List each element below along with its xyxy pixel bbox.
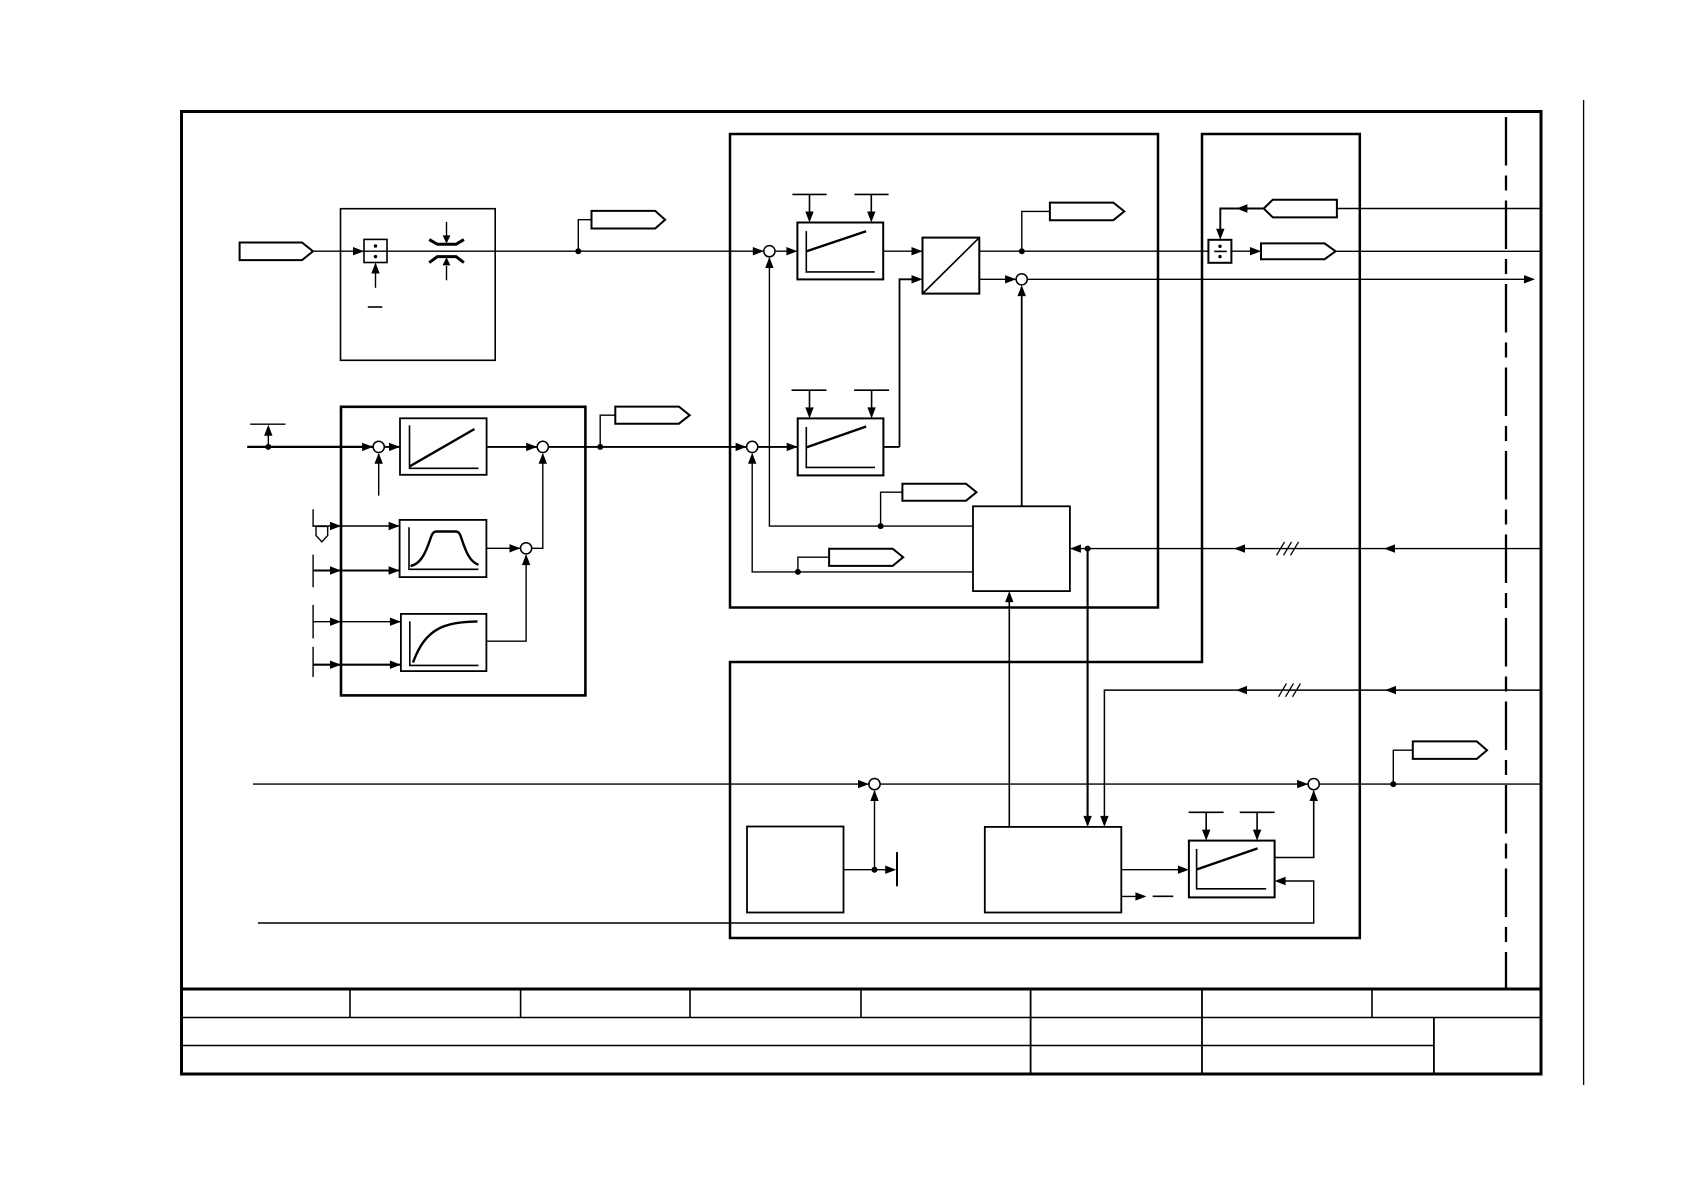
- connector flag F2: [829, 549, 903, 566]
- dashed source rail for left inputs: [312, 509, 314, 677]
- block B: scaling/limiter block top-left: [341, 209, 496, 361]
- arrowheads pointing down: [805, 212, 1261, 841]
- wire: kernel box M lower output toward minus: [1121, 895, 1140, 897]
- wire: S2 output line to right frame with end arrow: [1027, 278, 1526, 280]
- big adaptation box L: [973, 506, 1070, 591]
- divider box C inside block B: [364, 239, 387, 262]
- wire: left input line 2 into filter block: [313, 569, 400, 571]
- icon: band-pass characteristic in box 2: [409, 527, 479, 569]
- wire: G3 output elbow up into S5: [1275, 791, 1314, 858]
- icon: diagonal in slash box H: [923, 238, 979, 293]
- arrowheads pointing right: [330, 247, 1535, 901]
- summing circle S2: [1016, 274, 1027, 285]
- divider box K top right: [1208, 240, 1231, 263]
- connector flag A (main input top-left): [240, 243, 313, 261]
- ramp limiter box G1: [797, 223, 883, 280]
- icon: linear characteristic in box 1: [410, 425, 479, 468]
- hatch group marks on y=690: [1279, 683, 1301, 696]
- parameter T-input pair above ramp limiter G3: [1189, 812, 1275, 832]
- title block full-height separators: [1031, 989, 1434, 1074]
- icon: PT1 characteristic in box 3: [410, 621, 479, 665]
- hatch group marks on y=548.6: [1277, 542, 1299, 555]
- wire: vertical from P-output dot up into S4: [874, 791, 876, 870]
- wire: P box output to terminator bar: [844, 869, 894, 871]
- wire: stub below divider C with minus label: [375, 264, 377, 288]
- summing circle S5: [1308, 779, 1319, 790]
- connector flag F0 (filter block output): [615, 407, 689, 424]
- wire: parameter stub below summing circle Sa: [378, 454, 380, 496]
- wire: Sc to Sb elbow: [532, 454, 543, 548]
- wire: branch from y=784 dot to connector flag N: [1393, 750, 1413, 784]
- wire: long line y=923 with elbow into G3 right side: [258, 881, 1314, 923]
- title block column separators row1: [350, 989, 1372, 1018]
- limiter symbol inside block B: [429, 222, 464, 280]
- wire: left input line 1 into filter block: [313, 525, 400, 527]
- wire: slash box lower output to summing circle S2: [979, 278, 1016, 280]
- upper-level source bar symbol at main setpoint input: [250, 423, 285, 425]
- summing circle S3: [747, 441, 758, 452]
- wire: PT1 box output elbow into Sc bottom: [486, 555, 526, 641]
- ramp limiter box G2: [798, 418, 884, 475]
- summing circle Sc: [521, 543, 532, 554]
- monitor box P bottom-left: [747, 827, 844, 913]
- PT1 box 3: [401, 614, 487, 671]
- connector flag J1 (slash box output): [1050, 203, 1124, 221]
- summing circle S4: [869, 779, 880, 790]
- connector flag E (after block B): [592, 211, 666, 229]
- wire: branch from lower line to connector flag F0: [600, 415, 615, 447]
- kernel box M bottom-middle: [985, 827, 1122, 913]
- wire: lower main line y=447 setpoint channel: [247, 446, 899, 448]
- minus sign under divider C: [368, 306, 383, 308]
- wire: vertical below S3 down to y=572 line into big box: [752, 454, 973, 572]
- wire: upper main line y=251 from input flag through divider block to ramp generator: [313, 250, 1540, 252]
- linear gain box 1: [400, 418, 487, 475]
- wire: bold vertical from y=548.6 dot down into kernel box M: [1087, 549, 1089, 825]
- wire: vertical from big box top up into S2: [1021, 287, 1023, 506]
- summing circle S1: [764, 246, 775, 257]
- wire: right frame line y=208.5 with elbow down into divider K: [1337, 208, 1540, 210]
- wire: left input line 4 into filter block: [313, 664, 401, 666]
- wire: riser from dot to bar symbol: [267, 430, 269, 447]
- slash scaling box H: [923, 238, 980, 294]
- title block top bold line: [182, 988, 1542, 991]
- wire: flag F1 elbow to y=526 line: [881, 492, 903, 526]
- icon: ramp characteristic in G1: [806, 231, 874, 272]
- summing circle Sa: [373, 441, 384, 452]
- wire: big box bottom feed from kernel box M up: [1008, 593, 1010, 827]
- arrowheads pointing up: [264, 257, 1318, 801]
- connector flag F1: [902, 484, 976, 501]
- wire: long lower line y=784: [253, 783, 1540, 785]
- wire: band-pass box output into Sc: [486, 547, 520, 549]
- parameter T-input pair above ramp limiter G1: [792, 194, 888, 214]
- connector flag N (bottom right output): [1413, 741, 1487, 759]
- connector flag L1 (left-pointing, from other sheet): [1264, 200, 1337, 218]
- small pentagon marker on dashed rail: [316, 526, 328, 541]
- title block row1 line: [182, 1017, 1542, 1019]
- wire: vertical below S1 down to y=526 line into big box: [769, 258, 973, 526]
- icon: ramp characteristic in G2: [806, 427, 875, 468]
- terminator bar after P output: [896, 852, 898, 886]
- summing circle Sb: [537, 441, 548, 452]
- ramp limiter box G3 bottom-right: [1189, 841, 1275, 898]
- wire: kernel box M output to ramp limiter G3: [1121, 869, 1186, 871]
- wire: flag F2 elbow to y=572 line: [798, 557, 829, 572]
- arrowheads pointing left: [1070, 204, 1396, 885]
- wire: elbow from lower ramp output up into slash box second input: [900, 279, 921, 447]
- right region L-shaped bold outline (tall box + lower box): [730, 134, 1360, 938]
- right margin line: [1583, 100, 1585, 1085]
- title block row2 line: [182, 1045, 1434, 1047]
- connector flag J2 (divider K output): [1261, 243, 1336, 259]
- drawing frame border: [182, 112, 1542, 1075]
- band-pass box 2: [400, 520, 487, 577]
- wire: line y=548.6 from right frame into big box L: [1072, 548, 1540, 550]
- wire: left input line 3 into filter block: [313, 621, 401, 623]
- speed controller region box (middle): [730, 134, 1158, 608]
- icon: ramp characteristic in G3: [1197, 848, 1267, 888]
- wire: branch from upper line to connector flag E: [578, 220, 591, 252]
- minus sign after M lower output: [1153, 895, 1174, 897]
- wire: line y=690 from right frame with elbow down into kernel box M: [1104, 690, 1539, 825]
- wire: branch from upper line to connector flag J1: [1022, 211, 1050, 251]
- filter block (bold) mid-left: [341, 407, 585, 696]
- page-break dash-dot line: [1505, 117, 1507, 989]
- parameter T-input pair above ramp limiter G2: [792, 390, 890, 410]
